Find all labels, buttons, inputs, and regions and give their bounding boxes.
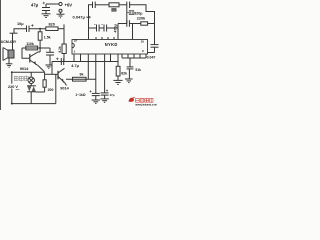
svg-text:47μ: 47μ (31, 3, 39, 8)
svg-text:8.2k: 8.2k (58, 46, 62, 52)
220V left wire (11, 72, 13, 103)
wire C8 to node A (29, 28, 46, 30)
capacitor C2a (93, 2, 96, 8)
ground under mic (6, 64, 13, 68)
svg-text:220 V: 220 V (8, 85, 18, 89)
wire vertical to IC pin (88, 8, 90, 40)
svg-text:10: 10 (141, 40, 145, 44)
wire (89, 27, 97, 29)
wire 110k feedback (22, 47, 50, 49)
capacitor C9 bypass (46, 48, 54, 65)
svg-text:+6V: +6V (65, 2, 73, 7)
wire (99, 27, 104, 29)
svg-text:9k: 9k (80, 73, 84, 77)
svg-text:470μ: 470μ (114, 24, 118, 32)
capacitor C4 (101, 24, 106, 31)
svg-text:www.jiexiantu.com: www.jiexiantu.com (135, 104, 156, 107)
svg-text:0.047: 0.047 (147, 56, 156, 60)
resistor 62k (116, 66, 120, 76)
terminal 0V (59, 9, 62, 12)
ground under 51k branch (125, 79, 133, 83)
Q1 emitter arrow (33, 61, 36, 65)
resistor 200 gate (44, 72, 46, 80)
wire terminal to ground (60, 12, 62, 14)
resistor 220k (141, 22, 148, 25)
51k branch (129, 58, 131, 67)
wire top supply (46, 3, 59, 5)
ground under C1 (42, 14, 51, 18)
triac (27, 86, 36, 104)
resistor 820 (46, 27, 58, 31)
svg-text:9014: 9014 (60, 86, 69, 90)
capacitor C5 (127, 20, 130, 27)
potentiometer RP (109, 3, 119, 7)
capacitor C2 (127, 2, 130, 8)
wire (107, 27, 118, 29)
svg-text:820μ: 820μ (134, 12, 142, 16)
capacitor C12 0.047u (151, 45, 159, 53)
node drop to IC pin (132, 24, 134, 40)
wire (148, 23, 155, 25)
svg-text:9014: 9014 (20, 67, 29, 71)
right wire down (154, 24, 156, 45)
resistor 1.5k vertical (39, 29, 41, 32)
svg-text:820: 820 (49, 23, 55, 27)
IC notch (72, 43, 74, 48)
capacitor C7 4.7u (56, 58, 64, 66)
IC top pin stubs (96, 37, 114, 40)
ground under 62k (113, 80, 122, 84)
resistor 9k (73, 77, 87, 81)
terminal bar (10, 32, 18, 34)
wire stepping down right (130, 5, 155, 24)
wire C12 to IC (148, 52, 155, 54)
capacitor C1 47u (42, 2, 50, 14)
svg-text:1~1kΩ: 1~1kΩ (75, 93, 85, 97)
node dot bottom left (11, 103, 13, 105)
pot value mark (112, 8, 117, 11)
left scan border (0, 0, 1, 110)
capacitor C11 (101, 90, 109, 99)
capacitor C10 (89, 90, 99, 100)
lamp load (28, 72, 34, 86)
node dot alarm rail left (11, 71, 13, 73)
wire Q2 base area to bottom rail (55, 74, 57, 103)
alarm top rail (12, 71, 45, 73)
capacitor C8 10u (27, 24, 34, 32)
background (0, 0, 160, 110)
svg-text:51k: 51k (135, 68, 141, 72)
node drop to IC pin (117, 24, 119, 40)
bottom return rail (12, 103, 56, 105)
capacitor C3 (94, 24, 99, 31)
watermark text line1 (136, 98, 153, 102)
mic top lead (12, 33, 14, 50)
svg-text:110k: 110k (26, 42, 34, 46)
ground under C10 (92, 100, 100, 103)
svg-text:200: 200 (48, 88, 54, 92)
ground under C11 (100, 99, 108, 102)
wire bar to coupling cap (14, 29, 27, 34)
wire upper feedback run (118, 23, 127, 25)
svg-text:UCM-63Y: UCM-63Y (1, 40, 17, 44)
wire 9k run (66, 78, 96, 80)
svg-text:62k: 62k (121, 71, 127, 75)
label 220V (8, 84, 21, 89)
wire bus under IC right (122, 57, 146, 59)
wire from C2 down (126, 8, 128, 24)
AC tilde (16, 89, 20, 91)
mic bottom lead (8, 58, 10, 64)
wire top filter chain start (89, 5, 93, 8)
node A dot (39, 28, 41, 30)
svg-text:18: 18 (74, 39, 78, 43)
transistor Q2 9014 (45, 68, 67, 85)
capacitor 51k node (127, 67, 134, 79)
wire 110k left down to base (22, 48, 30, 58)
ground under terminal (57, 14, 65, 18)
IC U1 body (72, 40, 148, 55)
capacitor C6 820u (127, 11, 134, 15)
svg-text:10μ: 10μ (17, 22, 24, 26)
svg-text:4.7μ: 4.7μ (71, 64, 79, 68)
svg-text:47μ: 47μ (110, 93, 115, 97)
svg-text:220k: 220k (137, 16, 146, 20)
wire (119, 4, 127, 6)
svg-text:1.5k: 1.5k (44, 36, 51, 40)
node dot collector top (39, 47, 41, 49)
svg-text:NYKD: NYKD (105, 42, 118, 47)
label yong dian qi glyphs (14, 76, 28, 82)
transistor Q1 9014 (30, 52, 45, 72)
watermark icon (129, 97, 135, 102)
terminal +6V (59, 2, 62, 5)
wire (129, 23, 140, 25)
resistor 8.2k vertical (63, 24, 65, 44)
resistor 110k (26, 46, 38, 50)
microphone UCM-63Y (3, 48, 14, 61)
ground under C9 (45, 65, 52, 68)
wire 820 to +rail drop (58, 28, 64, 30)
wire (95, 4, 109, 6)
wire bus under IC (52, 61, 118, 63)
Q2 emitter arrow (61, 79, 64, 84)
wire C7 to Q2 base (51, 62, 53, 75)
IC bottom pin stubs (74, 54, 146, 93)
triac gate wire (36, 91, 45, 93)
